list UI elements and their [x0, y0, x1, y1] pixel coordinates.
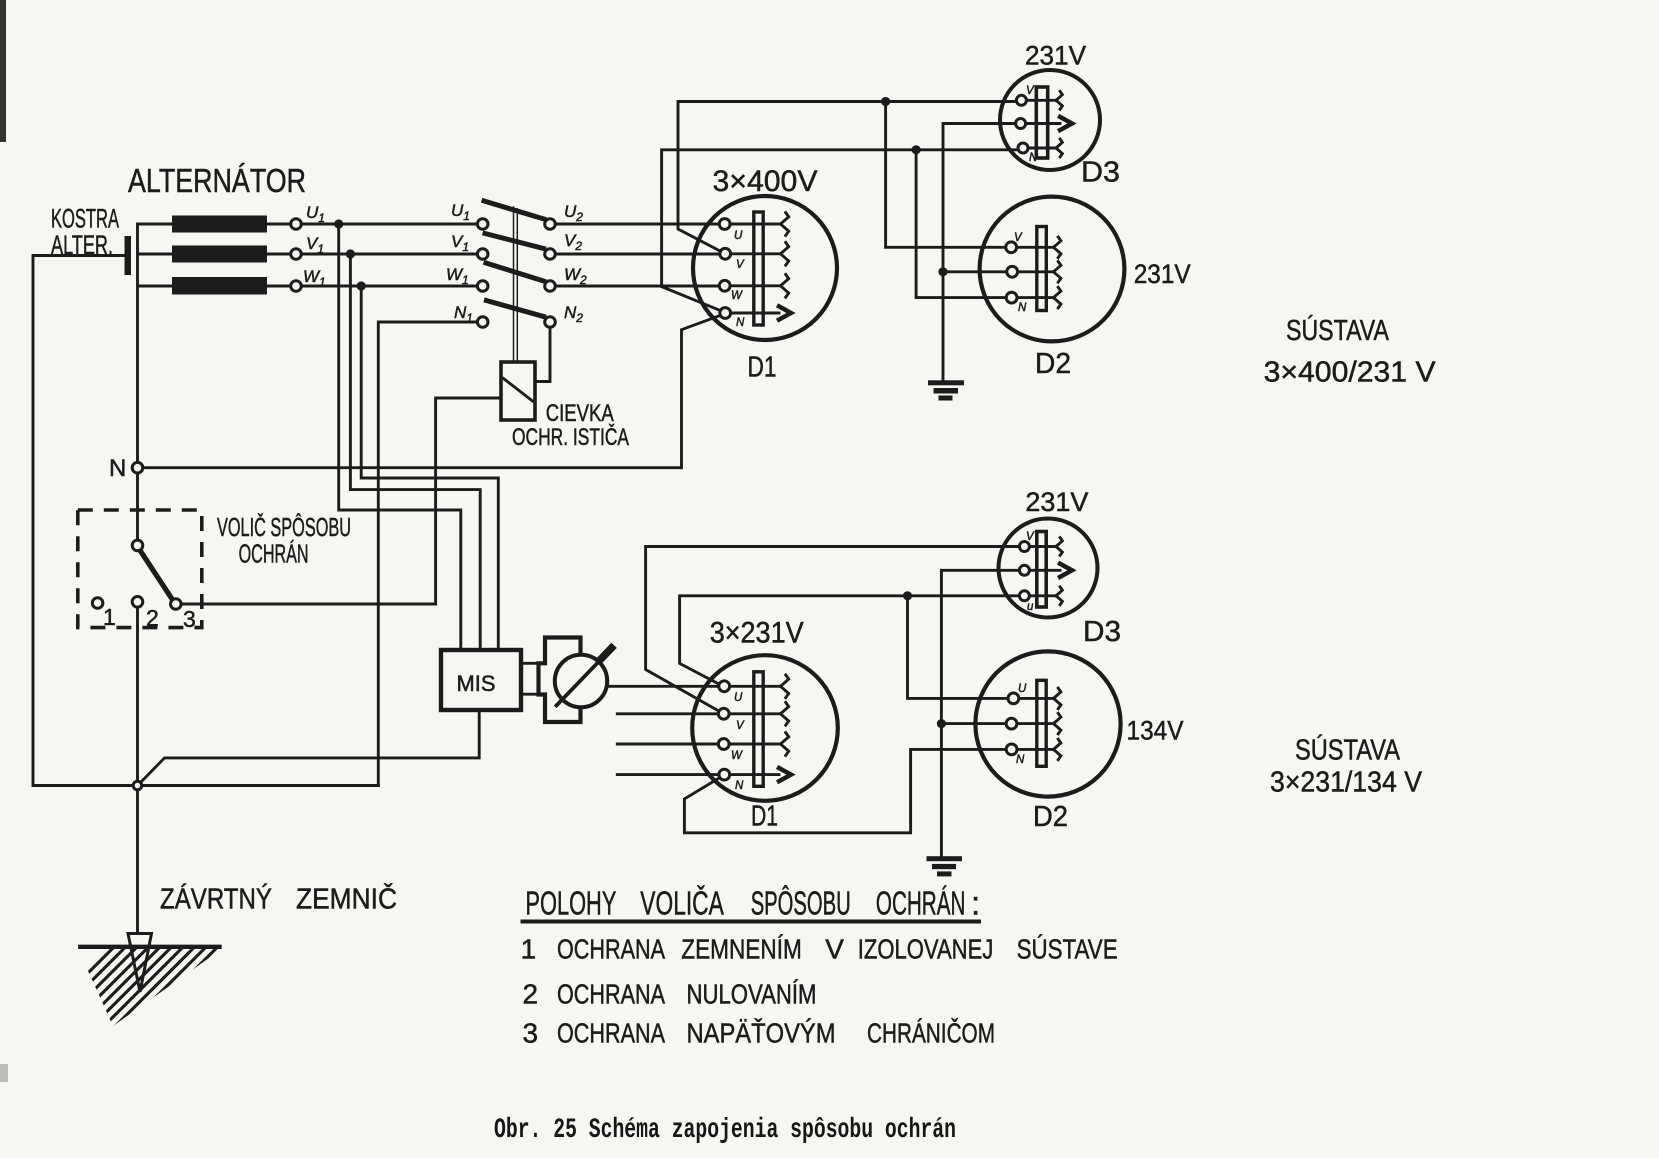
heading underline	[523, 920, 980, 924]
terminal V1	[291, 249, 302, 260]
chassis bar (kostra)	[125, 236, 132, 275]
wire node to N1 riser	[142, 784, 378, 787]
scan artifact: bottom-left mark	[0, 1064, 8, 1082]
svg-text:V: V	[1026, 531, 1035, 543]
alternator winding W	[172, 277, 267, 295]
junction on earth riser	[938, 267, 947, 276]
wire W2 to D1	[555, 285, 719, 288]
switch contact W2	[545, 281, 556, 292]
svg-text:D1: D1	[748, 352, 777, 384]
switch blade W	[486, 263, 544, 281]
wire U branch to MIS	[339, 224, 461, 650]
svg-text:OCHR. ISTIČA: OCHR. ISTIČA	[512, 423, 629, 451]
wire V1 to switch	[301, 253, 477, 256]
junction lower N row	[903, 591, 912, 600]
terminal W1	[291, 281, 302, 292]
svg-text:W: W	[731, 750, 743, 762]
earth surface line	[80, 945, 219, 949]
svg-text:D2: D2	[1033, 801, 1068, 833]
socket D1 (3x231V)	[692, 655, 838, 801]
svg-text:U1: U1	[451, 201, 470, 223]
svg-text:2OCHRANANULOVANÍM: 2OCHRANANULOVANÍM	[523, 979, 817, 1010]
junction U	[334, 219, 343, 228]
wire kostra loop (left side)	[33, 256, 133, 786]
switch contact N1	[477, 317, 488, 328]
wire lower D1 N loop to D2 N	[684, 749, 1006, 832]
meter cross body	[539, 638, 583, 723]
wire MIS to meter	[521, 663, 539, 694]
wire node to earth electrode	[136, 790, 139, 934]
wire star point connection	[138, 224, 173, 462]
svg-text:3×231V: 3×231V	[710, 617, 804, 650]
wire branch to D2 V	[886, 102, 1006, 248]
svg-text:U2: U2	[564, 202, 583, 224]
wire U2 to D1	[555, 223, 719, 226]
svg-text:SÚSTAVA: SÚSTAVA	[1295, 734, 1401, 767]
wire lower D3 earth to ground and D2 earth	[941, 570, 1019, 856]
ground symbol (lower)	[927, 856, 963, 876]
svg-text:231V: 231V	[1134, 259, 1191, 289]
wire W1 to switch	[301, 285, 477, 288]
selector contact 1	[92, 598, 103, 609]
wire lower D3 N row to D2 U	[680, 596, 1020, 699]
switch blade U	[484, 201, 544, 219]
svg-text:134V: 134V	[1127, 716, 1184, 746]
switch linkage bar	[514, 207, 518, 362]
switch contact N2	[545, 317, 556, 328]
switch blade V	[485, 234, 544, 249]
switch contact W1	[477, 281, 488, 292]
ground symbol (top)	[928, 380, 964, 400]
selector blade	[140, 550, 174, 601]
switch contact U1	[477, 219, 488, 230]
svg-text:U1: U1	[306, 203, 325, 225]
wire coil to selector contact 3	[181, 398, 501, 604]
switch blade N	[486, 301, 543, 317]
svg-text:N: N	[736, 317, 745, 329]
socket D3 (top 231V)	[1000, 70, 1100, 170]
svg-text:U: U	[734, 692, 743, 704]
svg-text:ZÁVRTNÝ: ZÁVRTNÝ	[160, 883, 272, 916]
junction lower earth riser	[937, 719, 946, 728]
svg-text:N: N	[735, 780, 744, 792]
wire V2 to D1	[555, 253, 720, 256]
wire lower D3 V to lower D1 V	[646, 547, 1019, 711]
svg-text:V1: V1	[451, 232, 469, 254]
svg-text:N: N	[1029, 152, 1038, 164]
wire N line to D1 N	[143, 466, 682, 469]
wire U1 to switch	[301, 223, 477, 226]
wire N1 to bottom node	[378, 322, 477, 786]
svg-text:1: 1	[103, 604, 116, 630]
wire branch to D2 N	[916, 150, 1006, 298]
svg-text:D3: D3	[1083, 616, 1121, 648]
svg-text:Obr. 25 Schéma zapojenia spôs: Obr. 25 Schéma zapojenia spôsobu ochrán	[494, 1115, 956, 1146]
socket D2 (top 231V)	[980, 197, 1125, 342]
switch contact V2	[545, 249, 556, 260]
svg-text:ZEMNIČ: ZEMNIČ	[296, 882, 397, 916]
MIS box	[441, 650, 521, 710]
meter circle	[555, 655, 607, 707]
selector contact 2	[132, 597, 143, 608]
alternator winding V	[172, 246, 267, 263]
junction on D3 V line	[881, 97, 890, 106]
svg-text:U: U	[1018, 683, 1027, 695]
wire winding U to terminal U1	[267, 223, 291, 226]
svg-text:W2: W2	[564, 265, 587, 287]
svg-text:3×400/231 V: 3×400/231 V	[1264, 357, 1437, 389]
switch contact V1	[477, 249, 488, 260]
svg-text:V: V	[1026, 85, 1035, 97]
selector contact 3	[171, 599, 182, 610]
svg-text:V: V	[1014, 232, 1023, 244]
stub wires into lower D1	[617, 714, 719, 775]
svg-text:N2: N2	[564, 303, 583, 325]
svg-text:N: N	[1016, 754, 1025, 766]
bottom node	[133, 781, 142, 790]
wire N2 to trip coil	[535, 327, 550, 381]
wire winding W to terminal W1	[267, 285, 291, 288]
svg-text:OCHRÁN: OCHRÁN	[239, 539, 309, 569]
earth electrode spike	[128, 934, 152, 993]
node N	[132, 462, 143, 473]
svg-text:V: V	[736, 720, 745, 732]
wire winding V to terminal V1	[267, 253, 291, 256]
scan artifact: left edge streak	[0, 0, 6, 142]
svg-text:SÚSTAVA: SÚSTAVA	[1286, 314, 1390, 347]
svg-text:3×231/134 V: 3×231/134 V	[1270, 767, 1423, 799]
junction on D3 N line	[912, 145, 921, 154]
socket D3 (lower 231V)	[999, 519, 1098, 618]
wire meter to lower D1 U	[607, 685, 718, 688]
socket D2 (134V)	[975, 651, 1120, 796]
selector dashed box	[78, 510, 202, 628]
svg-text:KOSTRA: KOSTRA	[51, 204, 119, 234]
junction W	[357, 281, 366, 290]
socket D1 (3x400V)	[693, 196, 837, 340]
wire node to MIS return	[140, 710, 479, 783]
wire N to selector common	[136, 473, 139, 540]
svg-text:W1: W1	[446, 265, 469, 287]
svg-text:N1: N1	[454, 303, 473, 325]
svg-text:231V: 231V	[1025, 487, 1088, 517]
svg-text:3OCHRANANAPÄŤOVÝMCHRÁNIČOM: 3OCHRANANAPÄŤOVÝMCHRÁNIČOM	[523, 1018, 996, 1049]
wire D3 earth pin to ground and D2 earth	[943, 124, 1016, 381]
junction V	[346, 249, 355, 258]
wire contact 2 to node	[136, 607, 139, 781]
svg-text:VOLIČ SPÔSOBU: VOLIČ SPÔSOBU	[217, 512, 351, 542]
terminal U1	[291, 219, 302, 230]
svg-text:V2: V2	[564, 231, 582, 253]
svg-text:2: 2	[146, 605, 159, 631]
wire D1 V to D3 V	[678, 102, 1016, 252]
meter needle	[557, 652, 609, 706]
svg-text:POLOHYVOLIČASPÔSOBUOCHRÁN:: POLOHYVOLIČASPÔSOBUOCHRÁN:	[525, 885, 980, 922]
svg-text:u: u	[1027, 601, 1034, 613]
alternator winding U	[172, 216, 267, 233]
selector common pole	[132, 540, 143, 551]
wire D1 N to N line	[682, 315, 721, 467]
switch contact U2	[545, 219, 556, 230]
svg-text:CIEVKA: CIEVKA	[546, 400, 614, 427]
svg-text:W: W	[731, 290, 743, 302]
svg-text:V: V	[736, 259, 745, 271]
svg-text:3×400V: 3×400V	[713, 165, 818, 198]
svg-text:D1: D1	[751, 801, 778, 833]
svg-text:N: N	[1018, 302, 1027, 314]
svg-text:MIS: MIS	[457, 671, 496, 696]
wire W branch to MIS	[361, 286, 498, 650]
svg-text:D2: D2	[1035, 348, 1071, 380]
svg-text:U: U	[734, 230, 743, 242]
svg-text:3: 3	[183, 606, 196, 632]
svg-text:231V: 231V	[1025, 41, 1086, 71]
svg-text:D3: D3	[1081, 157, 1120, 189]
svg-text:1OCHRANAZEMNENÍMVIZOLOVANEJSÚS: 1OCHRANAZEMNENÍMVIZOLOVANEJSÚSTAVE	[521, 934, 1118, 965]
wire V branch to MIS	[350, 254, 480, 650]
trip coil CIEVKA box	[501, 362, 535, 420]
wire D1 N to D3 N	[662, 150, 1018, 311]
svg-text:N: N	[109, 455, 126, 482]
svg-text:ALTERNÁTOR: ALTERNÁTOR	[128, 162, 306, 199]
